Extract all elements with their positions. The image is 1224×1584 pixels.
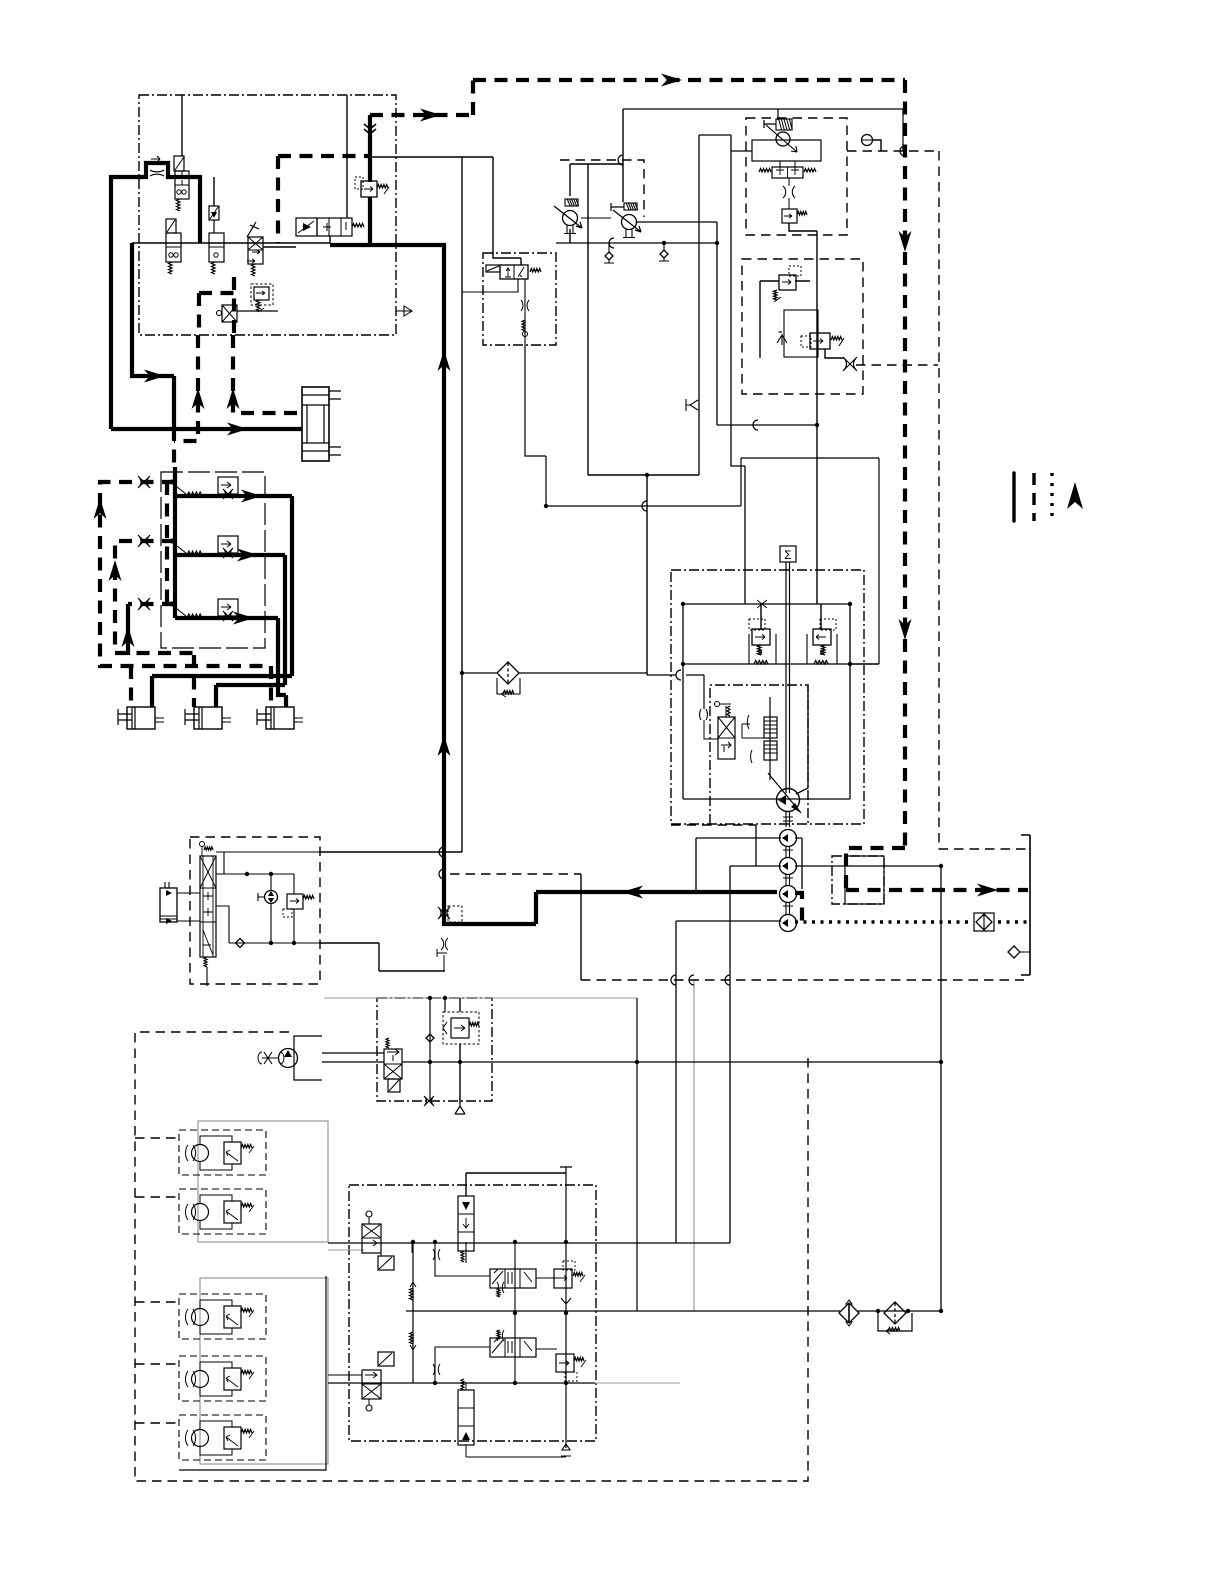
pilot cyl2 left (bold dash) xyxy=(194,655,271,707)
pilot valve4 drain (bold dash) xyxy=(233,277,302,413)
pilot row2 left (bold dash) xyxy=(115,541,194,653)
wire pump return xyxy=(536,890,777,894)
solenoid valve SV1 xyxy=(500,265,528,279)
pump stroke rod xyxy=(769,697,771,780)
valve V3 solenoid xyxy=(209,206,219,220)
shaft couplings xyxy=(783,812,793,915)
enclosure box pilot-control group (dash-dot) xyxy=(139,95,396,335)
grey frame upper xyxy=(198,1121,328,1242)
pump P1 body xyxy=(752,140,821,161)
wire xyxy=(462,673,704,709)
brake valve BC xyxy=(458,1196,474,1251)
servo valve SV2 xyxy=(718,717,735,759)
wire xyxy=(329,236,331,243)
valve V4 spring xyxy=(252,264,256,276)
enclosure fan valve (dash-dot) xyxy=(377,998,492,1101)
arrow xyxy=(109,560,122,581)
valve V4 xyxy=(248,237,263,264)
wire pumpB stub xyxy=(795,838,802,889)
pump P6 xyxy=(780,915,797,932)
brake valve BB xyxy=(362,1370,381,1399)
relief valve RV8 xyxy=(779,275,796,290)
arrow xyxy=(227,388,240,409)
wire riser to relief xyxy=(368,115,372,245)
block row2 port X xyxy=(138,535,150,547)
steering spring top xyxy=(204,847,213,850)
wire xyxy=(135,1138,179,1423)
arrow xyxy=(237,549,258,562)
enclosure pump-regulator box (dash-dot) xyxy=(671,570,864,824)
flow control FC1 xyxy=(563,211,578,226)
brake sol B xyxy=(378,1352,394,1366)
relief valve RV5 xyxy=(251,284,273,305)
pump stroke arrow xyxy=(768,773,801,813)
spring xyxy=(497,1288,500,1297)
wire xyxy=(465,1383,467,1390)
grey wire xyxy=(693,980,695,1311)
motor M3 xyxy=(179,1294,266,1339)
motor M1 xyxy=(179,1130,266,1175)
enclosure steering unit (dashed) xyxy=(190,837,320,984)
wire gauge dash xyxy=(847,150,938,152)
arrow xyxy=(122,626,135,647)
pilot row1 left (bold dash) xyxy=(100,482,268,666)
wire xyxy=(906,1309,910,1313)
arrow xyxy=(233,612,254,625)
valve V3 spring xyxy=(212,262,216,274)
arrow xyxy=(899,231,912,252)
steering spring bottom xyxy=(204,957,207,967)
wire branch arrow xyxy=(132,243,174,428)
check valve CV3 xyxy=(777,335,787,345)
pump P3 xyxy=(780,830,797,847)
wire xyxy=(206,967,208,986)
spring xyxy=(497,1330,500,1339)
wire xyxy=(645,473,649,477)
block row1 compensator spring xyxy=(187,492,202,496)
fan pump xyxy=(279,1049,298,1068)
flow control FC2 xyxy=(622,215,637,230)
wire xyxy=(536,1278,557,1349)
valve V2 spring xyxy=(169,262,173,274)
filter F1 xyxy=(839,1303,859,1323)
servo lever xyxy=(715,702,720,707)
port X2 xyxy=(843,357,857,371)
block row1 port X xyxy=(138,476,150,488)
wire xyxy=(411,1242,413,1253)
wire pumpC in xyxy=(730,866,781,1243)
wire xyxy=(466,1173,566,1196)
pilot line right return (bold dash) xyxy=(846,848,1028,890)
wire xyxy=(683,604,850,799)
wire return to filters xyxy=(406,1310,941,1312)
wire xyxy=(671,975,676,985)
summation box xyxy=(780,546,796,562)
valve V4 lever xyxy=(247,222,259,237)
spring xyxy=(461,1379,464,1390)
fan relief xyxy=(443,1012,479,1044)
wire xyxy=(324,997,637,999)
block row2 check valve xyxy=(218,536,238,553)
arrow xyxy=(420,109,441,122)
wire xyxy=(699,135,752,604)
arrow xyxy=(899,619,912,640)
block row3 check valve xyxy=(218,599,238,616)
block row1 lever xyxy=(172,483,186,494)
orifice up xyxy=(561,1294,571,1304)
legend dashed bar xyxy=(1032,473,1035,521)
filter F2 xyxy=(884,1302,906,1324)
servo feedback xyxy=(704,720,718,739)
arrow xyxy=(144,370,165,383)
wire tank return line xyxy=(328,1242,730,1244)
block row3 lever xyxy=(172,605,186,616)
wire xyxy=(825,349,844,358)
gauge G1 xyxy=(862,135,873,146)
wire xyxy=(182,95,347,218)
steering relief xyxy=(287,894,303,909)
pump P1 solenoid xyxy=(776,119,792,130)
wire xyxy=(570,109,623,475)
wire xyxy=(761,604,821,655)
wire xyxy=(681,602,685,606)
drain dotted line xyxy=(795,920,1028,923)
drain check xyxy=(1008,946,1020,958)
brake sol A xyxy=(378,1256,394,1270)
tank bracket xyxy=(1021,835,1030,975)
filter F2 bypass xyxy=(878,1313,912,1331)
check valve xyxy=(364,124,376,134)
cylinder C4 xyxy=(266,707,294,729)
pilot line top-left to main (bold dash) xyxy=(370,80,473,115)
wire xyxy=(132,242,330,244)
arrow xyxy=(661,74,682,87)
fan valve solenoid xyxy=(388,1079,400,1092)
pilot line top main (bold dash) xyxy=(473,78,905,82)
steering cylinder xyxy=(160,888,177,922)
fan blades xyxy=(262,1052,278,1064)
wire row3 drop (bold) xyxy=(126,604,130,655)
pump P2 variable xyxy=(777,789,800,812)
wire main supply left xyxy=(111,163,200,429)
wire motor return xyxy=(179,1276,326,1470)
wire xyxy=(328,1382,595,1384)
svg-text:Σ: Σ xyxy=(784,548,791,562)
arrow xyxy=(977,884,998,897)
enclosure junction (dash-dot) xyxy=(832,856,884,904)
shutoff valve on return xyxy=(448,906,462,922)
junction box (solid) xyxy=(845,856,884,904)
valve V1 spring xyxy=(177,199,181,211)
wire block feed xyxy=(173,467,177,618)
motor M5 xyxy=(179,1415,266,1460)
check-tank xyxy=(608,243,610,252)
brake valve BF xyxy=(490,1338,536,1357)
block row2 lever xyxy=(172,542,186,553)
arrow xyxy=(241,490,262,503)
wire xyxy=(560,1167,572,1448)
solenoid valve SV1 wires xyxy=(462,279,525,345)
enclosure pump asm box top right (dashed) xyxy=(746,118,847,235)
brake valve BD xyxy=(458,1390,474,1445)
wire xyxy=(525,345,879,664)
spring xyxy=(461,1251,464,1262)
pump P4 xyxy=(780,858,797,875)
orifice xyxy=(751,600,773,608)
pump P1 valve xyxy=(772,167,803,178)
wire xyxy=(623,109,903,151)
wire xyxy=(322,1053,384,1062)
fan valve xyxy=(384,1049,402,1079)
pilot branch box A (bold dash) xyxy=(278,156,370,243)
enclosure bottom drive group (dashed) xyxy=(135,1032,808,1481)
arrow xyxy=(438,735,451,756)
enclosure valve-block (solid+dashed) xyxy=(161,472,265,648)
wire pumpC out xyxy=(795,866,941,1313)
pump P1 circle xyxy=(776,132,790,146)
motor M2 xyxy=(179,1189,266,1234)
fan valve spring xyxy=(386,1038,389,1048)
wire xyxy=(411,1240,415,1244)
flow regulator xyxy=(150,170,164,176)
pump P1 relief xyxy=(782,209,797,223)
wire xyxy=(676,670,681,680)
servo port curves xyxy=(700,709,708,720)
wire xyxy=(556,222,817,425)
check-tank xyxy=(663,243,665,250)
wire relief out xyxy=(330,245,536,924)
filter F3 xyxy=(497,662,519,684)
arrow xyxy=(227,423,248,436)
wire xyxy=(466,1445,566,1457)
enclosure tall right (dashed) xyxy=(939,151,1027,849)
wire xyxy=(412,1242,414,1383)
pilot small box drain (bold dash) xyxy=(174,293,234,467)
steering valve stack xyxy=(200,856,216,957)
brake valve BE xyxy=(490,1269,536,1288)
wire xyxy=(213,177,215,206)
wire xyxy=(459,998,461,1103)
arrow xyxy=(94,498,107,519)
wire sigma shaft xyxy=(786,562,790,793)
wire pump drain (dash) xyxy=(671,824,756,826)
wire xyxy=(216,852,319,943)
wire xyxy=(872,140,881,151)
legend solid bar xyxy=(1012,473,1015,521)
brake relief RG xyxy=(554,1269,572,1288)
wire xyxy=(224,851,319,853)
port X3 xyxy=(424,1096,434,1106)
relief valve RV9 xyxy=(810,333,830,349)
arrow xyxy=(622,886,643,899)
wire block row3 xyxy=(175,618,286,707)
wire xyxy=(796,685,808,794)
enclosure solenoid-valve box (dash-dot) xyxy=(483,253,556,345)
wire pilot dash xyxy=(560,160,644,217)
valve V6 xyxy=(222,305,237,322)
pilot cyl1 left (bold dash) xyxy=(129,666,133,707)
block row1 check valve xyxy=(218,477,238,494)
valve V2 xyxy=(166,233,181,262)
valve V1 xyxy=(175,171,189,199)
brake valve BA xyxy=(362,1224,381,1253)
wire xyxy=(263,246,296,248)
pump P1 restrictor xyxy=(783,186,795,198)
spring xyxy=(814,661,828,665)
wire xyxy=(581,217,611,219)
relief valve RV11 xyxy=(813,629,831,645)
pump piston block xyxy=(764,717,777,738)
wire xyxy=(647,475,879,675)
legend arrow xyxy=(1067,482,1083,509)
block row2 compensator spring xyxy=(187,551,202,555)
arrow xyxy=(192,388,205,409)
wire xyxy=(755,825,757,866)
wire xyxy=(789,223,817,604)
wire manifold mid xyxy=(152,676,292,707)
pilot block supply (bold dash) xyxy=(165,482,169,604)
brake relief RH xyxy=(556,1354,574,1372)
shuttle 1 xyxy=(410,1288,414,1300)
wire block row2 xyxy=(175,555,285,685)
wire steering out xyxy=(319,852,581,980)
wire xyxy=(784,310,818,357)
relief valve RV10 xyxy=(752,629,770,645)
check valve CV2 xyxy=(686,405,699,417)
wire pumpE in xyxy=(676,921,781,1243)
wire xyxy=(465,1242,467,1263)
spring xyxy=(754,661,768,665)
valve V2 solenoid xyxy=(166,219,176,233)
wire xyxy=(760,281,810,358)
valve V3 stem xyxy=(213,220,215,233)
valve V1 solenoid xyxy=(174,156,184,171)
pilot row3 left (bold dash) xyxy=(128,602,175,606)
wire xyxy=(370,157,521,852)
block row3 compensator spring xyxy=(187,614,202,618)
wire fan line xyxy=(402,1061,941,1063)
steering pump xyxy=(265,891,278,904)
enclosure servo box (dash-dot) xyxy=(710,685,808,824)
enclosure brake block (dash-dot) xyxy=(349,1185,596,1441)
gauge point xyxy=(396,306,412,316)
motor M4 xyxy=(179,1356,266,1401)
wire block row1 xyxy=(175,496,292,676)
shuttle 2 xyxy=(410,1332,414,1344)
wire xyxy=(749,634,837,664)
enclosure valve box right (dashed) xyxy=(742,259,863,394)
block row3 port X xyxy=(138,598,150,610)
boxed check xyxy=(974,913,994,931)
wire drain dash xyxy=(856,364,938,366)
wire xyxy=(569,229,571,243)
proportional valve V5 xyxy=(296,218,317,236)
pilot line right drop (bold dash) xyxy=(903,80,907,848)
arrow xyxy=(438,350,451,371)
steering check xyxy=(236,939,245,948)
fan pump mount xyxy=(294,1036,322,1080)
wire main to cylinder xyxy=(111,427,302,431)
wire drain manifold (dash) xyxy=(581,979,1024,981)
cylinder C2 xyxy=(127,707,155,729)
legend dotted bar xyxy=(1050,473,1053,521)
relief valve RV7 xyxy=(361,181,377,197)
pump P5 xyxy=(780,886,797,903)
grey frame lower xyxy=(200,1278,328,1464)
cylinder C3 xyxy=(194,707,222,729)
cylinder C1 xyxy=(302,387,329,461)
orifice dn xyxy=(432,1278,441,1289)
tank T3 xyxy=(455,1099,465,1114)
wire pumpB in xyxy=(696,838,781,894)
wire xyxy=(588,474,699,476)
valve V3 xyxy=(209,233,224,262)
pilot pump drain (bold dash) xyxy=(795,893,802,921)
